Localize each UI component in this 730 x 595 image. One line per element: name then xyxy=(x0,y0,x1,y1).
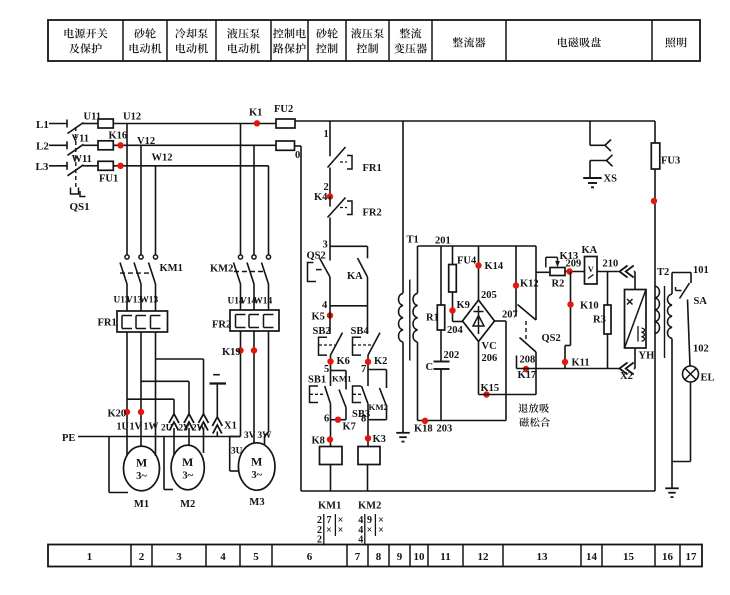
svg-text:13: 13 xyxy=(537,551,549,563)
svg-text:×: × xyxy=(326,525,332,536)
wire 210 xyxy=(597,271,620,273)
switch QS2 upper pole xyxy=(518,246,537,320)
label L3 xyxy=(36,161,49,173)
label K1 xyxy=(249,108,262,119)
transformer T2 primary xyxy=(655,286,660,334)
wire V12 bus xyxy=(113,144,276,146)
label KM1 aux xyxy=(332,374,352,384)
label K17 xyxy=(518,370,537,381)
wire FR2 to motor M3 phase 3V xyxy=(253,331,255,444)
label FR2 contact xyxy=(363,208,382,219)
svg-text:17: 17 xyxy=(686,551,698,563)
label L1 xyxy=(36,119,49,131)
label T1 xyxy=(407,235,419,246)
wire node8 to coil xyxy=(367,420,369,447)
wire FR2 to motor M3 phase 3W xyxy=(265,331,269,446)
label FR1 contact xyxy=(363,163,382,174)
ground T2 xyxy=(665,488,679,497)
svg-text:4: 4 xyxy=(322,300,328,311)
wire 102 xyxy=(688,300,691,367)
node K2 xyxy=(365,359,371,365)
wire PE drop to M2 xyxy=(164,437,173,490)
wire EL return xyxy=(672,382,691,462)
wire K10 drop xyxy=(565,272,571,369)
svg-text:L2: L2 xyxy=(36,141,49,153)
node K13 / 209 xyxy=(566,268,572,274)
svg-text:M: M xyxy=(251,455,262,469)
svg-text:207: 207 xyxy=(502,310,518,321)
label EL xyxy=(701,373,715,384)
label 209 xyxy=(566,258,582,269)
svg-text:×: × xyxy=(367,525,373,536)
svg-text:FR2: FR2 xyxy=(212,320,231,331)
node K9 xyxy=(449,307,455,313)
label SB4 xyxy=(351,326,370,337)
svg-text:FU4: FU4 xyxy=(457,256,477,267)
wire K12 drop xyxy=(515,246,517,317)
label SA xyxy=(694,296,708,307)
svg-text:KM1: KM1 xyxy=(160,263,183,274)
svg-text:202: 202 xyxy=(444,350,460,361)
wire YH bottom to X2 xyxy=(634,348,636,369)
label QS2 transfer xyxy=(542,333,561,344)
svg-text:4: 4 xyxy=(220,551,226,563)
svg-text:3~: 3~ xyxy=(136,471,147,482)
wire 101 xyxy=(672,273,691,284)
label QS1 xyxy=(70,201,90,213)
node 4 tie bar xyxy=(330,305,368,307)
label KM2 coil xyxy=(358,501,381,512)
wire blade to fuse W xyxy=(83,165,98,167)
label K18 xyxy=(414,424,433,435)
label M3 xyxy=(249,497,264,508)
capacitor C xyxy=(434,362,450,421)
wire FR2 to motor M3 phase 3U xyxy=(230,331,241,471)
svg-text:T2: T2 xyxy=(657,267,669,278)
node 2 / K4 xyxy=(327,193,333,199)
label R1 xyxy=(426,313,439,324)
svg-text:1V: 1V xyxy=(130,422,143,433)
label SB3 xyxy=(352,409,370,420)
label T2 xyxy=(657,267,669,278)
label 210 xyxy=(603,259,619,270)
node K20 test points xyxy=(124,409,144,415)
electromagnetic chuck YH xyxy=(625,290,647,349)
label V11 xyxy=(72,134,90,145)
KM1 contact usage table xyxy=(317,514,343,546)
svg-text:205: 205 xyxy=(481,290,497,301)
svg-text:M: M xyxy=(136,456,147,470)
label 102 xyxy=(693,344,709,355)
label U11 xyxy=(84,112,102,123)
terminal X1 connector 2U xyxy=(169,414,179,431)
svg-text:K14: K14 xyxy=(485,261,504,272)
node test point below FU3 xyxy=(651,198,657,204)
svg-text:QS1: QS1 xyxy=(70,201,90,213)
label K7 xyxy=(343,422,356,433)
label 201 xyxy=(435,236,451,247)
wire KM2 coil to rail xyxy=(367,465,369,492)
svg-text:KA: KA xyxy=(582,245,598,256)
svg-text:X2: X2 xyxy=(620,371,633,382)
svg-text:K18: K18 xyxy=(414,424,433,435)
svg-text:4: 4 xyxy=(358,535,363,546)
svg-text:1U: 1U xyxy=(117,422,129,433)
svg-text:1W: 1W xyxy=(144,422,159,433)
label 204 xyxy=(447,325,464,336)
svg-text:KM2: KM2 xyxy=(210,263,233,274)
switch QS1 xyxy=(68,123,86,197)
label XS xyxy=(604,174,618,185)
motor M3 xyxy=(238,443,275,490)
svg-text:6: 6 xyxy=(307,551,313,563)
svg-text:8: 8 xyxy=(361,414,366,425)
svg-text:210: 210 xyxy=(603,259,619,270)
svg-text:0: 0 xyxy=(295,150,300,161)
svg-text:R1: R1 xyxy=(426,313,439,324)
label K15 xyxy=(481,383,500,394)
label K12 xyxy=(520,279,539,290)
motor M2 xyxy=(171,445,204,490)
label L2 xyxy=(36,141,49,153)
label 0 xyxy=(295,150,300,161)
svg-text:×: × xyxy=(378,525,384,536)
svg-text:QS2: QS2 xyxy=(542,333,561,344)
wire blade to fuse V xyxy=(83,144,98,146)
svg-text:SB2: SB2 xyxy=(313,326,331,337)
label R2 xyxy=(552,279,565,290)
svg-text:W12: W12 xyxy=(152,152,173,163)
svg-text:KA: KA xyxy=(347,271,363,282)
svg-text:3: 3 xyxy=(323,240,328,251)
label 1U 1V 1W xyxy=(117,422,159,433)
wire K15 run to QS2 xyxy=(479,394,537,396)
label FU1 xyxy=(99,174,118,185)
switch QS2 auxiliary contact xyxy=(308,246,331,305)
svg-text:L1: L1 xyxy=(36,119,49,131)
label K10 xyxy=(580,301,599,312)
wire connector to YH xyxy=(634,272,635,290)
frame ground above X1 xyxy=(210,375,227,417)
svg-text:209: 209 xyxy=(566,258,582,269)
label VC xyxy=(482,341,497,352)
terminal X1 connector 2V xyxy=(184,414,194,431)
svg-text:W11: W11 xyxy=(72,154,92,165)
svg-text:VC: VC xyxy=(482,341,497,352)
svg-text:2: 2 xyxy=(317,535,322,546)
label KM1 xyxy=(160,263,183,274)
label KA contact xyxy=(347,271,363,282)
contact KM1 auxiliary (self hold) xyxy=(331,371,347,420)
svg-text:L3: L3 xyxy=(36,161,49,173)
wire R2 to KA coil xyxy=(565,271,585,273)
label FU3 xyxy=(661,156,680,167)
contactor KM1 main contacts xyxy=(120,124,158,312)
label M1 xyxy=(134,499,149,510)
wire 201 rail xyxy=(418,245,537,247)
svg-text:K9: K9 xyxy=(457,300,470,311)
node test point on W12 xyxy=(117,163,123,169)
svg-text:K11: K11 xyxy=(572,358,590,369)
resistor R3 xyxy=(604,272,611,369)
wire FR1 to motor M1 phase W xyxy=(155,332,157,456)
svg-text:10: 10 xyxy=(414,551,426,563)
wire L2 phase stub xyxy=(49,141,67,149)
terminal X1 connector PE xyxy=(212,417,222,437)
label K11 xyxy=(572,358,590,369)
svg-text:2W: 2W xyxy=(192,424,207,434)
ground T1 xyxy=(396,433,410,442)
node K1 test point xyxy=(254,120,260,126)
label 6 xyxy=(324,414,329,425)
svg-text:2: 2 xyxy=(139,551,145,563)
svg-text:K17: K17 xyxy=(518,370,537,381)
button SB2 (NC stop) xyxy=(319,306,343,355)
svg-text:K4: K4 xyxy=(314,192,328,203)
transformer T1 primary xyxy=(399,121,404,433)
svg-text:V: V xyxy=(588,264,595,274)
switch QS2 lower pole xyxy=(517,338,537,395)
bottom column-number table xyxy=(48,545,702,567)
svg-text:R3: R3 xyxy=(593,315,606,326)
svg-text:2V: 2V xyxy=(179,424,191,434)
svg-text:SB1: SB1 xyxy=(308,375,326,386)
svg-text:KM1: KM1 xyxy=(318,501,341,512)
fuse FU3 xyxy=(651,143,660,169)
svg-text:M1: M1 xyxy=(134,499,149,510)
node K5 xyxy=(327,312,333,318)
label 202 xyxy=(444,350,460,361)
label KM2 aux xyxy=(369,402,389,412)
button SB3 (NO start) xyxy=(353,386,369,420)
svg-text:M: M xyxy=(182,455,193,469)
label 1 xyxy=(324,129,329,140)
svg-text:XS: XS xyxy=(604,174,618,185)
svg-text:X1: X1 xyxy=(224,421,237,432)
svg-text:12: 12 xyxy=(478,551,490,563)
transformer T2 secondary xyxy=(668,273,673,489)
node K15 xyxy=(483,391,489,397)
svg-text:FR1: FR1 xyxy=(363,163,382,174)
label K19 xyxy=(222,347,241,358)
label 208 xyxy=(520,355,536,366)
label QS2 aux xyxy=(307,251,326,262)
wire 0 fuse to drop xyxy=(295,145,302,147)
label K14 xyxy=(485,261,504,272)
label K2 xyxy=(374,356,387,367)
node K8 xyxy=(327,436,333,442)
label K4 xyxy=(314,192,328,203)
label 3 xyxy=(323,240,328,251)
label 8 xyxy=(361,414,366,425)
wire FR1 to motor M1 phase U xyxy=(126,332,128,455)
label FR2 xyxy=(212,320,231,331)
wire neutral 0 drop xyxy=(300,146,302,491)
svg-text:3W: 3W xyxy=(258,431,273,441)
contact KM2 auxiliary (self hold) xyxy=(368,370,387,420)
wire L3 phase stub xyxy=(49,162,67,170)
relay KA voltage coil xyxy=(585,257,598,285)
label M2 xyxy=(180,499,195,510)
svg-text:FR2: FR2 xyxy=(363,208,382,219)
switch SA xyxy=(676,283,690,299)
svg-text:K5: K5 xyxy=(312,312,325,323)
label 2U 2V 2W xyxy=(161,424,207,434)
svg-text:208: 208 xyxy=(520,355,536,366)
svg-text:3: 3 xyxy=(176,551,182,563)
svg-text:×: × xyxy=(338,525,344,536)
svg-text:KM1: KM1 xyxy=(332,374,352,384)
node K10 xyxy=(567,301,573,307)
label 4 xyxy=(322,300,328,311)
label YH xyxy=(639,351,655,362)
relay contact KA (NO) xyxy=(358,246,368,305)
svg-text:FU1: FU1 xyxy=(99,174,118,185)
wire KM1 coil to rail xyxy=(330,465,332,492)
svg-text:M2: M2 xyxy=(180,499,195,510)
label K16 xyxy=(109,130,128,141)
svg-text:K7: K7 xyxy=(343,422,356,433)
svg-text:201: 201 xyxy=(435,236,451,247)
node K17 xyxy=(523,366,529,372)
svg-text:2U: 2U xyxy=(161,424,173,434)
wire K9 to rectifier xyxy=(453,321,463,323)
svg-text:K19: K19 xyxy=(222,347,241,358)
svg-text:206: 206 xyxy=(482,353,498,364)
svg-text:K10: K10 xyxy=(580,301,599,312)
svg-text:14: 14 xyxy=(586,551,598,563)
label 2 xyxy=(324,182,329,193)
svg-text:11: 11 xyxy=(440,551,450,563)
wire K14 drop (201 to 205) xyxy=(478,246,480,300)
wire node6 to coil xyxy=(330,420,332,447)
label K9 xyxy=(457,300,470,311)
wire 207 feed (right vertex down to 203) xyxy=(495,321,507,421)
svg-text:K8: K8 xyxy=(312,436,325,447)
svg-text:T1: T1 xyxy=(407,235,419,246)
label 7 xyxy=(361,364,366,375)
transformer T2 core xyxy=(664,286,666,358)
label 203 xyxy=(437,424,453,435)
svg-text:U11: U11 xyxy=(84,112,102,123)
label FU4 xyxy=(457,256,477,267)
fuse FU2 xyxy=(276,119,295,128)
label R3 xyxy=(593,315,606,326)
lamp EL xyxy=(683,366,699,382)
svg-text:YH: YH xyxy=(639,351,655,362)
svg-text:C: C xyxy=(426,362,434,373)
svg-text:R2: R2 xyxy=(552,279,565,290)
wire U12 bus xyxy=(113,123,276,125)
terminal X1 connector 2W xyxy=(199,414,209,431)
label FU2 xyxy=(274,104,293,115)
svg-text:K15: K15 xyxy=(481,383,500,394)
node K11 xyxy=(562,359,568,365)
svg-text:SB4: SB4 xyxy=(351,326,370,337)
fuse FU1 (three fuses) xyxy=(98,119,113,170)
label X1 xyxy=(224,421,237,432)
wire right rail xyxy=(654,121,656,491)
label KM2 xyxy=(210,263,233,274)
label U13 V13 W13 xyxy=(114,296,159,306)
node K7 xyxy=(335,417,341,423)
svg-text:6: 6 xyxy=(324,414,329,425)
label demagnetize-release-hold xyxy=(518,403,550,427)
svg-text:V11: V11 xyxy=(72,134,90,145)
svg-text:K16: K16 xyxy=(109,130,128,141)
svg-text:K6: K6 xyxy=(337,356,350,367)
svg-text:W13: W13 xyxy=(140,296,159,306)
wire 206 output down xyxy=(478,342,480,395)
wire W12 bus xyxy=(113,165,268,167)
wire branch 2W xyxy=(156,359,204,453)
node 3 tie bar xyxy=(330,245,368,247)
svg-text:V12: V12 xyxy=(137,136,155,147)
svg-text:M3: M3 xyxy=(249,497,264,508)
label KA coil xyxy=(582,245,598,256)
node K18 xyxy=(422,418,428,424)
node K3 xyxy=(365,435,371,441)
svg-text:5: 5 xyxy=(253,551,259,563)
label W11 xyxy=(72,154,92,165)
wire 203 rail xyxy=(418,420,507,422)
label K3 xyxy=(373,434,386,445)
label 3V 3W xyxy=(244,431,272,441)
wire PE bus xyxy=(78,436,241,438)
top function-zone table xyxy=(48,20,700,61)
label 206 xyxy=(482,353,498,364)
wire SB2 to SB1 xyxy=(330,355,332,386)
connector X2 xyxy=(620,363,634,375)
fuse on control neutral 0 xyxy=(276,141,295,150)
svg-text:K1: K1 xyxy=(249,108,262,119)
wire L1 phase stub xyxy=(49,120,67,128)
svg-text:FU2: FU2 xyxy=(274,104,293,115)
button SB4 (NC stop) xyxy=(353,306,381,355)
svg-text:7: 7 xyxy=(361,364,366,375)
node K6 xyxy=(327,358,333,364)
contact FR2 (NC, overload) xyxy=(328,197,353,247)
svg-text:QS2: QS2 xyxy=(307,251,326,262)
label PE xyxy=(62,433,75,444)
wire top rail line 1 xyxy=(295,120,655,122)
wire PE drop to M1 xyxy=(109,437,128,493)
label K6 xyxy=(337,356,350,367)
label V12 xyxy=(137,136,155,147)
label FR1 xyxy=(98,318,117,329)
svg-text:3~: 3~ xyxy=(251,470,262,481)
label 5 xyxy=(324,364,329,375)
thermal relay FR1 heaters xyxy=(117,311,168,332)
switch QS2 linkage xyxy=(525,321,527,339)
svg-text:101: 101 xyxy=(693,265,709,276)
svg-text:203: 203 xyxy=(437,424,453,435)
svg-text:EL: EL xyxy=(701,373,715,384)
button SB1 (NO start) xyxy=(310,386,331,420)
svg-text:FU3: FU3 xyxy=(661,156,680,167)
coil KM1 xyxy=(320,447,343,465)
svg-text:FR1: FR1 xyxy=(98,318,117,329)
wire branch 2V xyxy=(141,381,189,445)
connector 210 to chuck xyxy=(620,266,634,278)
resistor R1 xyxy=(437,246,444,362)
svg-text:3~: 3~ xyxy=(182,471,193,482)
label U12 xyxy=(123,112,141,123)
svg-text:5: 5 xyxy=(324,364,329,375)
svg-text:204: 204 xyxy=(447,325,464,336)
socket XS xyxy=(583,121,612,187)
label U14 V14 W14 xyxy=(228,297,273,307)
